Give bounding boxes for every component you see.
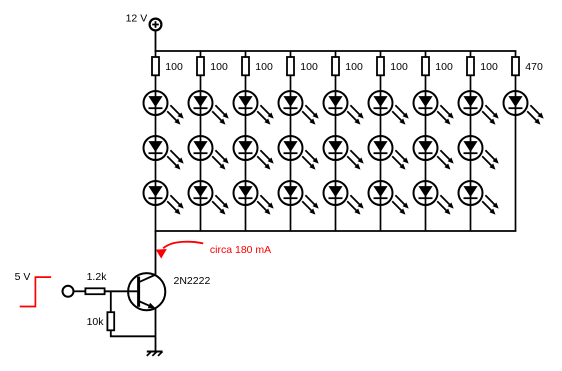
svg-text:100: 100 bbox=[435, 61, 453, 73]
LED D9a column 9 row 1 bbox=[504, 91, 544, 125]
svg-text:circa 180 mA: circa 180 mA bbox=[210, 244, 271, 256]
svg-text:100: 100 bbox=[390, 61, 408, 73]
LED D7a column 7 row 1 bbox=[414, 91, 454, 125]
resistor R11 10k bbox=[107, 312, 114, 330]
LED D5b column 5 row 2 bbox=[324, 136, 364, 170]
wire branch column 9 bbox=[515, 51, 517, 231]
LED D6b column 6 row 2 bbox=[369, 136, 409, 170]
LED D1a column 1 row 1 bbox=[144, 91, 184, 125]
wire branch column 4 bbox=[290, 51, 292, 231]
resistor R9 470 bbox=[512, 57, 519, 75]
svg-text:2N2222: 2N2222 bbox=[174, 275, 211, 287]
LED D2b column 2 row 2 bbox=[189, 136, 229, 170]
LED D5a column 5 row 1 bbox=[324, 91, 364, 125]
input terminal node bbox=[63, 286, 74, 297]
LED D6a column 6 row 1 bbox=[369, 91, 409, 125]
wire branch column 3 bbox=[245, 51, 247, 231]
svg-text:100: 100 bbox=[255, 61, 273, 73]
LED D4a column 4 row 1 bbox=[279, 91, 319, 125]
wire branch column 8 bbox=[470, 51, 472, 231]
LED D3c column 3 row 3 bbox=[234, 181, 274, 215]
LED D8a column 8 row 1 bbox=[459, 91, 499, 125]
svg-text:10k: 10k bbox=[87, 316, 105, 328]
current annotation arrow bbox=[156, 242, 203, 259]
wire base junction to R11 bbox=[110, 291, 112, 312]
resistor R1 100 bbox=[152, 57, 159, 75]
svg-text:1.2k: 1.2k bbox=[87, 271, 108, 283]
LED D5c column 5 row 3 bbox=[324, 181, 364, 215]
wire emitter to ground bbox=[155, 308, 157, 352]
svg-text:100: 100 bbox=[210, 61, 228, 73]
resistor R5 100 bbox=[332, 57, 339, 75]
LED D4c column 4 row 3 bbox=[279, 181, 319, 215]
LED D8c column 8 row 3 bbox=[459, 181, 499, 215]
power supply +12V terminal bbox=[150, 19, 162, 31]
ground symbol bbox=[147, 352, 163, 356]
wire bottom bus to transistor collector bbox=[155, 231, 157, 275]
LED D3b column 3 row 2 bbox=[234, 136, 274, 170]
resistor R4 100 bbox=[287, 57, 294, 75]
resistor R2 100 bbox=[197, 57, 204, 75]
LED D7b column 7 row 2 bbox=[414, 136, 454, 170]
svg-text:100: 100 bbox=[345, 61, 363, 73]
LED D1c column 1 row 3 bbox=[144, 181, 184, 215]
LED D3a column 3 row 1 bbox=[234, 91, 274, 125]
LED D2a column 2 row 1 bbox=[189, 91, 229, 125]
LED D2c column 2 row 3 bbox=[189, 181, 229, 215]
resistor R10 1.2k bbox=[85, 288, 104, 294]
wire branch column 2 bbox=[200, 51, 202, 231]
wire R10 to base bbox=[105, 290, 138, 292]
wire R11 to emitter bbox=[111, 330, 156, 336]
resistor R7 100 bbox=[422, 57, 429, 75]
svg-text:100: 100 bbox=[480, 61, 498, 73]
bottom bus wire bbox=[155, 230, 517, 232]
LED D7c column 7 row 3 bbox=[414, 181, 454, 215]
svg-text:100: 100 bbox=[300, 61, 318, 73]
svg-text:470: 470 bbox=[525, 61, 543, 73]
input step waveform 5V bbox=[20, 277, 51, 306]
resistor R8 100 bbox=[467, 57, 474, 75]
resistor R3 100 bbox=[242, 57, 249, 75]
wire supply to top bus bbox=[155, 31, 157, 51]
wire branch column 6 bbox=[380, 51, 382, 231]
wire branch column 5 bbox=[335, 51, 337, 231]
LED D8b column 8 row 2 bbox=[459, 136, 499, 170]
LED D6c column 6 row 3 bbox=[369, 181, 409, 215]
wire branch column 1 bbox=[155, 51, 157, 231]
transistor Q1 2N2222 bbox=[128, 273, 165, 310]
resistor R6 100 bbox=[377, 57, 384, 75]
LED D4b column 4 row 2 bbox=[279, 136, 319, 170]
wire branch column 7 bbox=[425, 51, 427, 231]
wire terminal to R10 bbox=[74, 290, 86, 292]
top bus wire bbox=[155, 50, 517, 52]
svg-text:5 V: 5 V bbox=[15, 271, 31, 283]
svg-text:12 V: 12 V bbox=[126, 13, 148, 25]
LED D1b column 1 row 2 bbox=[144, 136, 184, 170]
svg-text:100: 100 bbox=[165, 61, 183, 73]
